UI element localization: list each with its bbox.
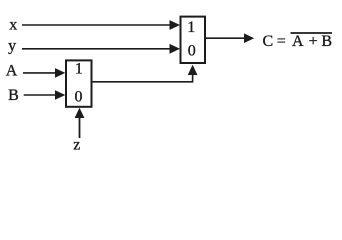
svg-text:1: 1: [75, 61, 83, 78]
svg-text:A: A: [292, 33, 304, 50]
svg-text:0: 0: [75, 89, 83, 106]
svg-text:1: 1: [187, 19, 195, 36]
svg-text:+: +: [309, 33, 318, 50]
svg-text:z: z: [73, 136, 80, 153]
svg-text:A: A: [6, 63, 18, 80]
svg-text:y: y: [8, 37, 16, 54]
svg-text:=: =: [277, 33, 286, 50]
svg-text:x: x: [9, 16, 17, 33]
svg-text:C: C: [263, 33, 274, 50]
svg-text:0: 0: [188, 43, 196, 60]
svg-text:B: B: [8, 87, 19, 104]
svg-text:B: B: [321, 33, 332, 50]
